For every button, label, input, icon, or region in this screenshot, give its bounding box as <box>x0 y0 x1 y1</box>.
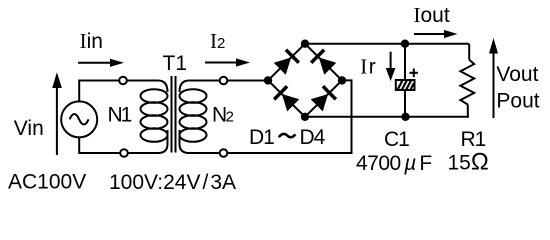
svg-text:Pout: Pout <box>496 90 539 113</box>
diode D lower-right (bottom node to right node) <box>310 85 337 112</box>
plus sign of C1 <box>410 69 419 78</box>
arrow Iout <box>414 30 458 38</box>
arrow Ir <box>386 52 396 81</box>
transformer T1 secondary winding N2 <box>180 81 221 154</box>
svg-text:C1: C1 <box>384 128 409 151</box>
wire secondary top to bridge <box>227 80 268 82</box>
wire secondary bottom to bridge right (return) <box>227 80 351 153</box>
svg-text:4700µF: 4700µF <box>356 152 432 175</box>
arrow Vin <box>52 72 62 155</box>
arrow Iin <box>78 59 124 67</box>
svg-text:D1: D1 <box>249 126 274 149</box>
wire top rail <box>305 43 469 45</box>
svg-text:15Ω: 15Ω <box>448 149 489 176</box>
diode D lower-left (bottom node to left node) <box>273 85 300 112</box>
terminal primary bottom <box>120 149 128 157</box>
wire bottom-left rail <box>79 137 120 153</box>
node top rail junction <box>401 40 409 48</box>
arrow Vout/Pout <box>489 38 498 118</box>
svg-text:N1: N1 <box>108 103 132 126</box>
svg-text:D4: D4 <box>300 126 326 149</box>
svg-text:Iin: Iin <box>80 29 103 53</box>
wire top-left rail <box>79 81 119 102</box>
ac source V1 <box>61 101 97 137</box>
node bridge bottom <box>301 113 309 121</box>
svg-text:AC100V: AC100V <box>8 170 86 193</box>
transformer T1 primary winding N1 <box>127 81 168 154</box>
label D1~D4 <box>249 126 326 149</box>
svg-text:100V:24V/3A: 100V:24V/3A <box>109 171 236 194</box>
terminal primary top <box>119 77 127 85</box>
resistor R1 <box>460 44 474 117</box>
node bridge left <box>264 76 272 84</box>
diode D upper-left (left node to top node) <box>273 48 300 75</box>
wire bottom rail <box>305 116 469 118</box>
arrow I2 <box>205 58 250 66</box>
terminal secondary bottom <box>220 149 228 157</box>
transformer core <box>172 76 176 153</box>
svg-text:Vout: Vout <box>496 63 538 86</box>
svg-text:Vin: Vin <box>14 117 44 140</box>
diode bridge frame <box>268 44 342 117</box>
svg-text:Iout: Iout <box>414 3 450 27</box>
capacitor C1 <box>396 44 415 117</box>
node bottom rail junction <box>401 113 409 121</box>
diode D upper-right (right node to top node) <box>310 48 337 75</box>
node bridge right <box>338 76 346 84</box>
node bridge top <box>301 40 309 48</box>
svg-text:T1: T1 <box>163 52 188 75</box>
svg-text:Ir: Ir <box>360 55 376 79</box>
terminal secondary top <box>220 77 228 85</box>
